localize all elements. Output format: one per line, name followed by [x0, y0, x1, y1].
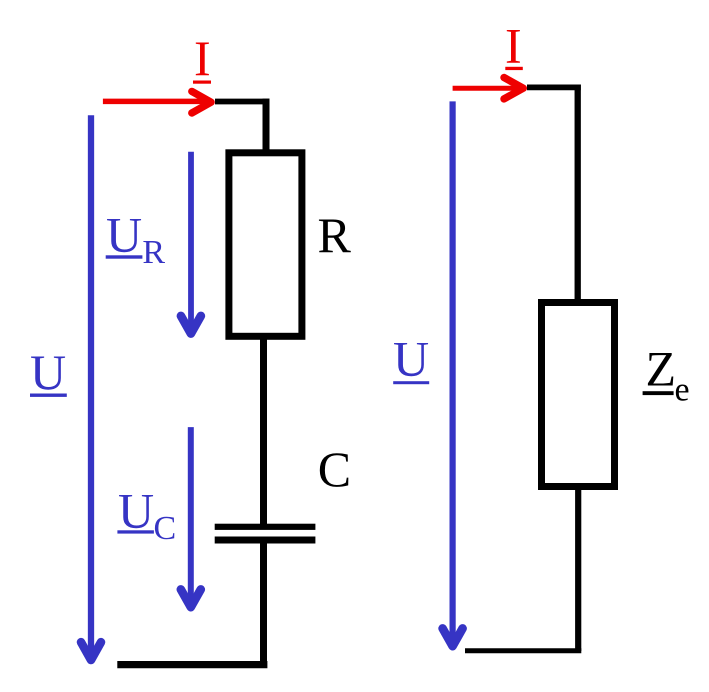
current arrow I (left circuit)	[103, 91, 211, 113]
svg-text:I: I	[505, 18, 522, 74]
current arrow I (right circuit)	[453, 78, 524, 99]
bottom wire (left circuit)	[117, 661, 267, 668]
voltage arrow U (right circuit)	[443, 101, 463, 646]
voltage arrow U_R	[181, 152, 201, 334]
svg-text:U: U	[118, 483, 154, 539]
impedance Z_e	[542, 303, 615, 487]
capacitor C	[215, 524, 316, 544]
wire: capacitor to bottom	[260, 543, 267, 666]
svg-text:R: R	[318, 207, 352, 263]
svg-text:e: e	[675, 371, 690, 408]
svg-text:I: I	[194, 30, 211, 86]
svg-text:U: U	[30, 344, 66, 400]
svg-text:C: C	[318, 441, 351, 497]
label U (left circuit)	[30, 344, 67, 400]
label U_R	[106, 207, 166, 272]
label I (right circuit)	[505, 18, 523, 74]
svg-text:Z: Z	[646, 341, 677, 397]
wire: top node to impedance Z_e	[527, 85, 581, 303]
wire: impedance to bottom	[575, 486, 581, 651]
svg-text:U: U	[106, 207, 142, 263]
resistor R	[229, 153, 302, 336]
svg-text:C: C	[154, 510, 177, 547]
svg-text:R: R	[142, 234, 165, 271]
wire: top node to resistor R	[215, 99, 270, 152]
svg-text:U: U	[393, 331, 429, 387]
label I (left circuit)	[193, 30, 211, 86]
voltage arrow U (left circuit)	[81, 115, 101, 660]
label U (right circuit)	[393, 331, 429, 387]
bottom wire (right circuit)	[465, 648, 581, 653]
label Z_e	[643, 341, 690, 409]
wire: resistor to capacitor	[260, 337, 267, 526]
label U_C	[117, 483, 176, 547]
voltage arrow U_C	[181, 427, 201, 607]
